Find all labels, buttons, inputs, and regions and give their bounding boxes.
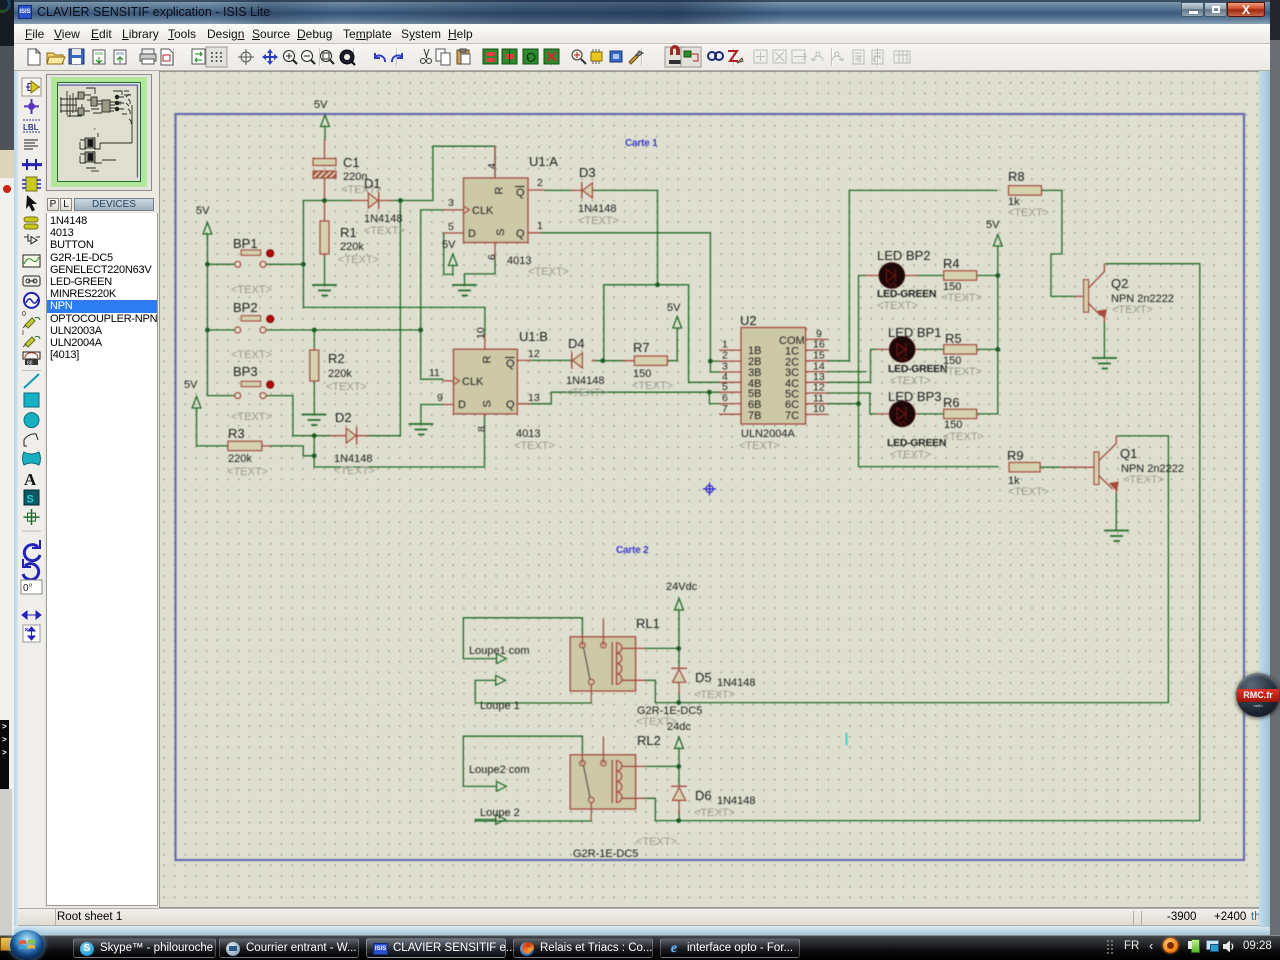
wire: 24dc to RL2 coil+ and D6 bbox=[645, 749, 679, 785]
power 5V above R7 bbox=[673, 317, 682, 329]
svg-text:1N4148: 1N4148 bbox=[717, 677, 756, 689]
transistor Q1 bbox=[1060, 436, 1184, 493]
wire: R2 top/bottom bbox=[313, 330, 315, 414]
save bbox=[69, 49, 84, 64]
svg-text:Q: Q bbox=[506, 399, 515, 411]
svg-text:D2: D2 bbox=[335, 410, 352, 425]
svg-text:8: 8 bbox=[476, 426, 488, 432]
svg-text:ULN2004A: ULN2004A bbox=[741, 428, 795, 440]
svg-text:1N4148: 1N4148 bbox=[717, 795, 756, 807]
wire: U1:B Q(13) to U2 5B/6B bbox=[530, 392, 720, 404]
push button BP2 bbox=[231, 300, 274, 361]
svg-text:4013: 4013 bbox=[516, 428, 540, 440]
ground under R2 bbox=[303, 415, 326, 426]
origin bbox=[238, 49, 254, 65]
node: BP2/CLK rail junction bbox=[418, 328, 423, 333]
wire: CLK3/CLK11 rail with BP2 row bbox=[421, 210, 443, 379]
wire: Q1 emitter to ground bbox=[1115, 493, 1117, 529]
diode D5 bbox=[672, 667, 756, 702]
tray bbox=[1106, 939, 1114, 955]
svg-text:1N4148: 1N4148 bbox=[364, 213, 403, 225]
status bar bbox=[14, 908, 1261, 926]
undo bbox=[375, 53, 385, 62]
capacitor C1 bbox=[313, 140, 382, 198]
wire: Q1 collector to RL1 coil return bbox=[655, 436, 1168, 703]
svg-text:220k: 220k bbox=[340, 241, 364, 253]
node: D5 anode junction bbox=[676, 700, 681, 705]
wire: D2 node verticals to U1:B S(8) bbox=[314, 415, 484, 468]
wire: R7 right to 5V bbox=[668, 328, 677, 361]
desktop left strip behind window bbox=[0, 0, 16, 960]
svg-text:Loupe 1: Loupe 1 bbox=[480, 700, 520, 712]
svg-text:5V: 5V bbox=[196, 205, 210, 217]
svg-text:<TEXT>: <TEXT> bbox=[578, 215, 619, 227]
svg-text:R8: R8 bbox=[1008, 169, 1025, 184]
terminal Loupe2 com bbox=[469, 764, 530, 791]
zoom out bbox=[302, 51, 316, 65]
2D closed path mode bbox=[23, 452, 41, 465]
svg-text:5V: 5V bbox=[986, 219, 1000, 231]
import sheet bbox=[93, 50, 105, 64]
zoom all bbox=[340, 50, 355, 65]
wire: RL1 pole to Loupe 1 terminal bbox=[475, 680, 591, 703]
LED BP1 bbox=[876, 325, 947, 387]
node: U2 6C rail junction bbox=[856, 401, 861, 406]
svg-text:<TEXT>: <TEXT> bbox=[890, 375, 931, 387]
canvas bbox=[160, 72, 1260, 907]
svg-text:88: 88 bbox=[27, 361, 33, 367]
diode D1 bbox=[352, 176, 405, 237]
wire: U1:B D(9) to ground bbox=[421, 405, 444, 424]
svg-text:<TEXT>: <TEXT> bbox=[227, 466, 268, 478]
LED BP2 bbox=[866, 248, 936, 312]
LED BP3 bbox=[876, 389, 946, 461]
darlington array U2 bbox=[720, 313, 828, 452]
cut bbox=[421, 49, 432, 64]
svg-text:$: $ bbox=[857, 55, 862, 64]
P / L buttons and DEVICES header bbox=[47, 198, 59, 211]
svg-text:<TEXT>: <TEXT> bbox=[943, 431, 984, 443]
node: 24Vdc / RL1 coil+ junction bbox=[676, 646, 681, 651]
svg-text:<TEXT>: <TEXT> bbox=[528, 266, 569, 278]
resistor R3 bbox=[227, 426, 270, 478]
svg-text:D5: D5 bbox=[695, 670, 712, 685]
resistor R6 bbox=[943, 395, 984, 443]
svg-text:<TEXT>: <TEXT> bbox=[877, 300, 918, 312]
svg-text:U1:A: U1:A bbox=[529, 154, 558, 169]
svg-text:<TEXT>: <TEXT> bbox=[231, 284, 272, 296]
svg-text:7: 7 bbox=[722, 403, 728, 415]
wire: LED BP3 to R6 to rail corner bbox=[918, 413, 998, 415]
wire: RL2 coil- to D6 anode row bbox=[645, 798, 679, 820]
gate mode bbox=[24, 234, 40, 244]
wire: Q2 collector to RL2 coil return bbox=[655, 264, 1200, 821]
flip-flop U1:A bbox=[443, 146, 569, 278]
svg-text:R4: R4 bbox=[943, 256, 960, 271]
svg-text:1: 1 bbox=[537, 220, 543, 232]
wire: U2 5C to LED BP3 bbox=[828, 393, 877, 414]
wire: U1:B Q̄(12) to D4 cathode bbox=[530, 359, 571, 361]
svg-text:S: S bbox=[27, 494, 34, 506]
copy bbox=[436, 49, 450, 65]
window inner bottom/side glass bbox=[14, 926, 1270, 936]
node: D6 anode junction bbox=[676, 818, 681, 823]
wire: BP3 right to D2 anode node bbox=[266, 396, 314, 436]
2D symbol mode bbox=[24, 490, 39, 506]
redo bbox=[392, 53, 402, 62]
cyan tick marker bbox=[846, 734, 848, 745]
text script mode bbox=[24, 140, 38, 149]
zoom area bbox=[321, 51, 335, 65]
search bbox=[708, 52, 723, 60]
ground under R1 bbox=[313, 285, 336, 296]
node: BP1 wire junction bbox=[301, 262, 306, 267]
wire label mode bbox=[23, 120, 40, 132]
power 5V for R3 bbox=[192, 397, 201, 413]
svg-text:<TEXT>: <TEXT> bbox=[1112, 304, 1153, 316]
svg-text:LED-GREEN: LED-GREEN bbox=[877, 288, 936, 300]
node: R3 junction bbox=[312, 453, 317, 458]
svg-text:13: 13 bbox=[528, 392, 540, 404]
svg-text:Q: Q bbox=[516, 187, 525, 199]
zoom in bbox=[284, 51, 298, 65]
svg-text:<TEXT>: <TEXT> bbox=[636, 836, 677, 848]
svg-text:Q1: Q1 bbox=[1120, 446, 1137, 461]
new bbox=[28, 49, 40, 65]
ground at U1:B D pin bbox=[410, 424, 433, 435]
svg-text:U1:B: U1:B bbox=[519, 329, 548, 344]
caption buttons bbox=[1181, 2, 1204, 17]
svg-text:D3: D3 bbox=[579, 165, 596, 180]
wire: BP1 right to rail bbox=[266, 263, 303, 265]
block move bbox=[502, 49, 517, 64]
node: D2 anode junction bbox=[312, 433, 317, 438]
wire: U1:A D(5) to 5V loop bbox=[444, 233, 453, 274]
node A junction (C1/R1/D1/BP1) bbox=[322, 198, 327, 203]
svg-text:D6: D6 bbox=[695, 788, 712, 803]
resistor R7 bbox=[624, 340, 673, 392]
svg-text:12: 12 bbox=[528, 348, 540, 360]
svg-text:<TEXT>: <TEXT> bbox=[334, 465, 375, 477]
wire: LED BP2 to R4 to 5V rail bbox=[918, 275, 998, 277]
svg-text:<TEXT>: <TEXT> bbox=[231, 349, 272, 361]
power 24dc bbox=[675, 737, 684, 749]
svg-text:150: 150 bbox=[944, 419, 962, 431]
svg-text:R2: R2 bbox=[328, 351, 345, 366]
svg-text:1N4148: 1N4148 bbox=[578, 203, 617, 215]
svg-text:<TEXT>: <TEXT> bbox=[326, 381, 367, 393]
svg-text:LED-GREEN: LED-GREEN bbox=[888, 363, 947, 375]
pick device bbox=[572, 50, 586, 64]
relay RL1 bbox=[570, 616, 702, 728]
2D box mode bbox=[24, 393, 39, 407]
svg-text:10: 10 bbox=[475, 327, 487, 339]
resistor R8 bbox=[1008, 169, 1049, 219]
wire: U1:A S(6) to ground bbox=[465, 259, 496, 284]
pan bbox=[262, 49, 278, 65]
terminal Loupe 1 bbox=[480, 676, 520, 713]
node: U2 5B junction bbox=[707, 390, 712, 395]
svg-text:CLK: CLK bbox=[462, 376, 484, 388]
auto wire (pressed) bbox=[681, 47, 701, 67]
paste bbox=[457, 49, 470, 64]
packaging bbox=[610, 51, 622, 62]
wire: R1 bottom to ground bbox=[324, 255, 326, 284]
svg-text:R: R bbox=[482, 356, 494, 364]
svg-text:Loupe2 com: Loupe2 com bbox=[469, 764, 530, 776]
window inner left glass border bbox=[14, 71, 18, 926]
wire: BP2 right to CLK rail bbox=[266, 329, 421, 331]
svg-text:<TEXT>: <TEXT> bbox=[739, 440, 780, 452]
svg-text:150: 150 bbox=[633, 368, 651, 380]
wire: R3 to D2 anode node bbox=[197, 409, 315, 456]
title bar bbox=[14, 0, 1270, 24]
svg-text:R5: R5 bbox=[945, 331, 962, 346]
svg-text:R3: R3 bbox=[228, 426, 245, 441]
ground at Q1 emitter bbox=[1105, 531, 1128, 542]
block delete bbox=[544, 49, 559, 64]
wire: R8 to Q2 base jog bbox=[1042, 190, 1075, 296]
task buttons bbox=[73, 938, 216, 958]
svg-text:CLK: CLK bbox=[472, 205, 494, 217]
svg-text:<TEXT>: <TEXT> bbox=[231, 411, 272, 423]
resistor R9 bbox=[1007, 448, 1049, 498]
node: D1 cathode junction bbox=[398, 198, 403, 203]
svg-text:<TEXT>: <TEXT> bbox=[941, 292, 982, 304]
bus mode bbox=[22, 159, 42, 170]
block copy bbox=[483, 49, 498, 64]
junction mode bbox=[24, 99, 39, 114]
2D line mode bbox=[24, 374, 39, 388]
svg-text:<TEXT>: <TEXT> bbox=[1008, 486, 1049, 498]
wire: D1/D2 cathode rail bbox=[399, 201, 401, 436]
node: R2 top junction bbox=[312, 328, 317, 333]
diode D2 bbox=[330, 410, 375, 477]
graph mode bbox=[23, 255, 40, 267]
wire: RL1 coil- to D5 anode row bbox=[645, 680, 679, 702]
2D marker mode bbox=[24, 509, 40, 525]
svg-text:24Vdc: 24Vdc bbox=[666, 581, 698, 593]
node: D3 anode junction bbox=[655, 282, 660, 287]
node: R5 / 5V rail junction bbox=[995, 347, 1000, 352]
redraw bbox=[192, 49, 205, 64]
svg-text:A: A bbox=[24, 470, 37, 489]
svg-text:220k: 220k bbox=[228, 453, 252, 465]
rotate clockwise bbox=[24, 545, 40, 561]
svg-text:RL2: RL2 bbox=[637, 733, 661, 748]
node: U2 2B junction bbox=[708, 359, 713, 364]
start orb bbox=[10, 930, 44, 960]
wire: 5V rail of push buttons bbox=[207, 234, 234, 396]
voltage probe mode bbox=[22, 311, 40, 328]
RMC.fr badge bbox=[1236, 673, 1280, 717]
instant edit cursor bbox=[26, 195, 37, 212]
wire: D4 anode node to R7 bbox=[595, 360, 624, 362]
mirror vertical bbox=[23, 625, 40, 642]
push button BP1 bbox=[231, 236, 274, 296]
diode D4 bbox=[566, 336, 607, 399]
virtual instrument mode bbox=[23, 352, 40, 367]
node: 24dc / RL2 coil+ junction bbox=[676, 764, 681, 769]
svg-text:0°: 0° bbox=[23, 583, 33, 594]
svg-text:G2R-1E-DC5: G2R-1E-DC5 bbox=[573, 848, 638, 860]
diode D3 bbox=[545, 165, 619, 227]
wire: U2 4C to LED BP1 bbox=[828, 349, 877, 382]
angle edit box bbox=[21, 580, 42, 594]
resistor R1 bbox=[320, 203, 379, 266]
relay RL2 bbox=[570, 733, 677, 860]
mark area bbox=[161, 49, 173, 65]
rotate anticlockwise bbox=[23, 564, 39, 580]
wire: D3 anode node to D4 and 4B bbox=[593, 190, 720, 382]
svg-text:5V: 5V bbox=[442, 239, 456, 251]
svg-text:<TEXT>: <TEXT> bbox=[632, 380, 673, 392]
left tool strip bbox=[14, 71, 44, 911]
flip-flop U1:B bbox=[429, 327, 555, 452]
diode D6 bbox=[672, 785, 756, 820]
component mode (selected) bbox=[22, 78, 41, 96]
sheet border bbox=[176, 114, 1245, 860]
svg-text:D1: D1 bbox=[364, 176, 381, 191]
svg-text:5V: 5V bbox=[667, 302, 681, 314]
wire: Q2 emitter to ground bbox=[1103, 322, 1105, 357]
wire: U2 6C / LED BP2 / R9 rail bbox=[828, 276, 999, 467]
svg-text:BP1: BP1 bbox=[233, 236, 258, 251]
svg-text:0: 0 bbox=[22, 311, 26, 318]
svg-text:Q2: Q2 bbox=[1111, 276, 1128, 291]
block rotate bbox=[523, 49, 538, 64]
resistor R5 bbox=[941, 331, 982, 378]
svg-text:R7: R7 bbox=[633, 340, 650, 355]
svg-text:<TEXT>: <TEXT> bbox=[694, 807, 735, 819]
svg-text:LBL: LBL bbox=[23, 123, 39, 132]
svg-text:9: 9 bbox=[437, 392, 443, 404]
svg-text:C1: C1 bbox=[343, 155, 360, 170]
svg-text:5V: 5V bbox=[314, 99, 328, 111]
svg-text:<TEXT>: <TEXT> bbox=[890, 449, 931, 461]
svg-text:1N4148: 1N4148 bbox=[334, 453, 373, 465]
svg-text:7C: 7C bbox=[785, 410, 799, 422]
push button BP3 bbox=[231, 364, 274, 423]
wire: U2 2C to R8 bbox=[828, 190, 998, 360]
svg-text:3: 3 bbox=[448, 197, 454, 209]
svg-text:BP3: BP3 bbox=[233, 364, 258, 379]
grayed icons bbox=[754, 50, 910, 64]
wire: 24Vdc to RL1 coil+ and D5 bbox=[645, 610, 679, 667]
svg-text:RL1: RL1 bbox=[636, 616, 660, 631]
svg-text:R6: R6 bbox=[943, 395, 960, 410]
separators bbox=[77, 48, 878, 66]
resistor R4 bbox=[941, 256, 982, 304]
origin marker bbox=[704, 483, 716, 495]
transistor Q2 bbox=[1075, 264, 1174, 322]
export sheet bbox=[114, 50, 126, 64]
generator mode bbox=[24, 293, 39, 308]
open bbox=[47, 53, 65, 64]
decompose bbox=[629, 51, 643, 64]
svg-text:D4: D4 bbox=[568, 336, 585, 351]
terminal Loupe1 com bbox=[469, 645, 530, 664]
svg-text:4: 4 bbox=[486, 163, 498, 169]
svg-text:R1: R1 bbox=[340, 225, 357, 240]
power 5V button rail bbox=[203, 223, 212, 241]
make device bbox=[591, 49, 602, 64]
ground at Q2 emitter bbox=[1093, 358, 1116, 369]
power 24Vdc bbox=[675, 599, 684, 611]
svg-text:<TEXT>: <TEXT> bbox=[514, 440, 555, 452]
svg-text:Carte 1: Carte 1 bbox=[625, 138, 658, 149]
resistor R2 bbox=[310, 349, 367, 393]
make device bbox=[24, 217, 38, 229]
svg-text:2: 2 bbox=[537, 177, 543, 189]
2D arc mode bbox=[24, 434, 38, 446]
property assign bbox=[728, 51, 743, 63]
power 5V at U1:A D pin bbox=[449, 254, 458, 266]
wire: U2 3C stub bbox=[828, 371, 867, 373]
svg-text:5V: 5V bbox=[184, 379, 198, 391]
subcircuit mode bbox=[22, 177, 41, 191]
wire: RL2 NO contact stub bbox=[602, 738, 604, 754]
wire: Loupe1 com terminal to RL1 contact bbox=[463, 618, 582, 659]
node: D4 anode junction bbox=[600, 358, 605, 363]
svg-text:5: 5 bbox=[448, 221, 454, 233]
2D circle mode bbox=[24, 413, 39, 428]
wire: D2 anode/cathode stubs bbox=[314, 435, 400, 437]
svg-text:R9: R9 bbox=[1007, 448, 1024, 463]
svg-text:S: S bbox=[495, 229, 507, 236]
edit area bbox=[159, 71, 1261, 908]
svg-text:220k: 220k bbox=[328, 368, 352, 380]
svg-text:<TEXT>: <TEXT> bbox=[694, 689, 735, 701]
svg-text:LED BP1: LED BP1 bbox=[888, 325, 941, 340]
terminal Loupe 2 bbox=[480, 807, 520, 824]
menu bar bbox=[14, 24, 1270, 44]
svg-text:D: D bbox=[458, 399, 466, 411]
wire: RL1 NO contact stub bbox=[602, 620, 604, 636]
svg-text:Loupe1 com: Loupe1 com bbox=[469, 645, 530, 657]
tape recorder mode bbox=[23, 276, 40, 286]
current probe mode bbox=[22, 330, 40, 347]
power 5V above R4 bbox=[993, 235, 1002, 247]
svg-text:I: I bbox=[22, 330, 24, 337]
svg-text:BP2: BP2 bbox=[233, 300, 258, 315]
svg-text:LED-GREEN: LED-GREEN bbox=[887, 437, 946, 449]
node: BP1 junction on 5V rail bbox=[205, 262, 210, 267]
mirror horizontal bbox=[22, 611, 41, 619]
svg-text:7B: 7B bbox=[748, 410, 761, 422]
svg-text:Carte 2: Carte 2 bbox=[616, 545, 649, 556]
svg-text:10: 10 bbox=[813, 403, 825, 415]
grid toggle (pressed) bbox=[206, 47, 227, 67]
svg-text:LED BP2: LED BP2 bbox=[877, 248, 930, 263]
svg-text:<TEXT>: <TEXT> bbox=[941, 366, 982, 378]
svg-text:<TEXT>: <TEXT> bbox=[1008, 207, 1049, 219]
svg-text:S: S bbox=[482, 400, 494, 407]
overview minimap panel bbox=[46, 74, 152, 191]
svg-text:<TEXT>: <TEXT> bbox=[1123, 474, 1164, 486]
toolbar bbox=[14, 44, 1270, 71]
svg-text:6: 6 bbox=[486, 254, 498, 260]
svg-text:11: 11 bbox=[429, 367, 440, 379]
wire: node A row to D1 and BP1 drop bbox=[303, 201, 352, 265]
device list bbox=[46, 213, 158, 906]
node: R4 / 5V rail junction bbox=[995, 273, 1000, 278]
svg-text:U2: U2 bbox=[740, 313, 757, 328]
svg-text:Q: Q bbox=[516, 228, 525, 240]
svg-text:<TEXT>: <TEXT> bbox=[636, 716, 677, 728]
app icon bbox=[18, 5, 32, 19]
wire: R9 to Q1 base bbox=[1041, 466, 1085, 468]
